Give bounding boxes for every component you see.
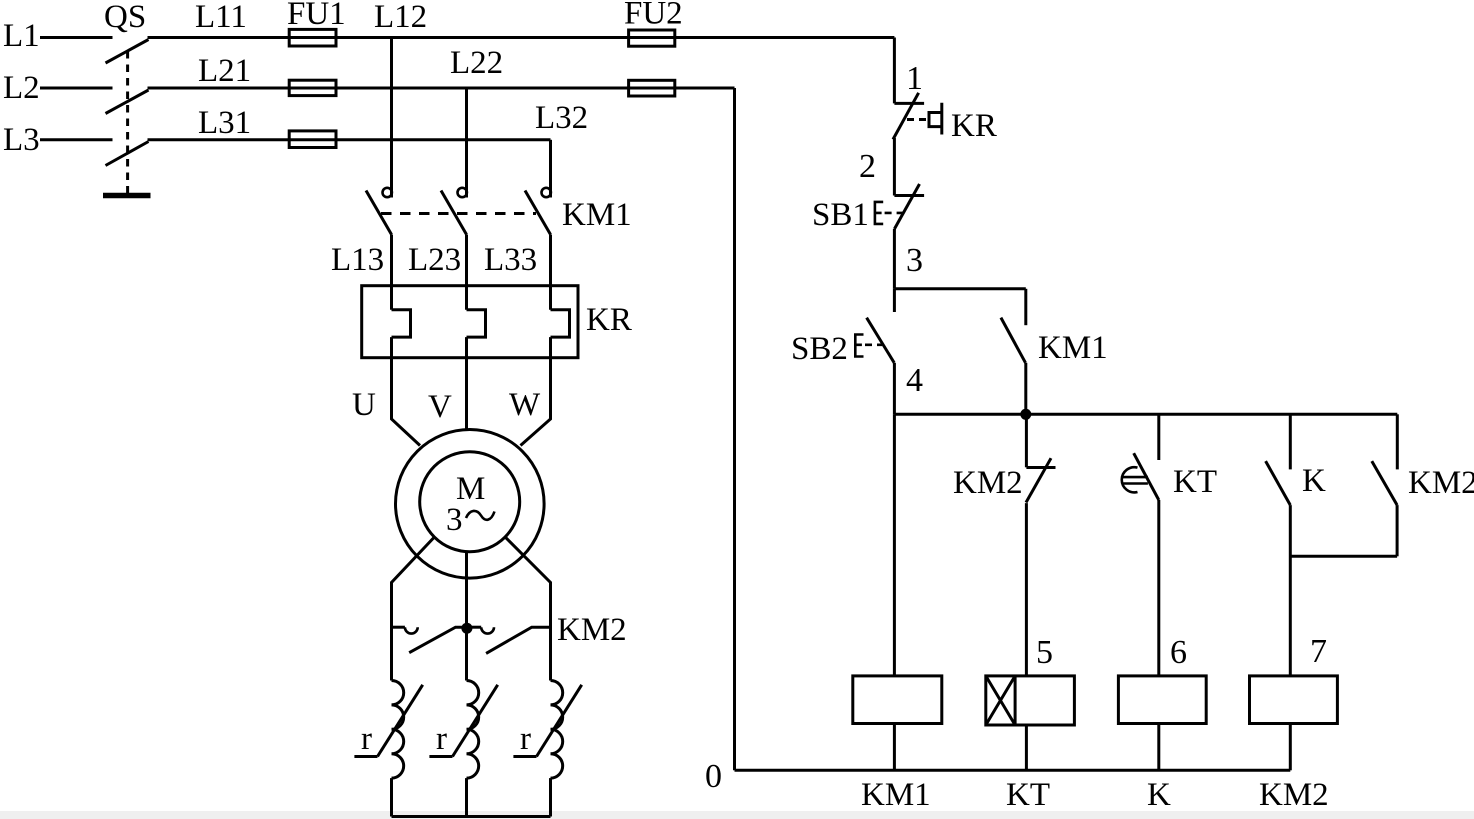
- wire row L31: [148, 138, 551, 141]
- svg-text:W: W: [509, 387, 541, 423]
- thermal relay KR box: [362, 286, 578, 358]
- rotor star bar: [392, 815, 551, 818]
- svg-text:FU2: FU2: [624, 0, 683, 32]
- contactor KM2 aux contact blade: [1372, 461, 1397, 505]
- contactor KM1 main contact 2 fixed terminal circle: [458, 188, 467, 197]
- button SB1 operator dashed link: [885, 212, 903, 215]
- coil KT X mark: [986, 676, 1015, 725]
- svg-text:4: 4: [906, 362, 923, 399]
- rotor wire r1 tail: [390, 778, 393, 816]
- svg-text:L3: L3: [3, 122, 40, 158]
- coil KM1: [853, 676, 942, 724]
- inductor r1 adjust arrow: [378, 685, 423, 757]
- svg-text:L13: L13: [331, 242, 384, 278]
- wire L22 drop: [465, 88, 468, 198]
- motor tilde mark: [466, 511, 495, 520]
- svg-text:KM1: KM1: [861, 777, 931, 813]
- inductor r3 adjust arrow: [537, 685, 582, 757]
- svg-text:L1: L1: [3, 18, 40, 54]
- wire L33 drop: [549, 235, 552, 310]
- svg-text:3: 3: [906, 242, 923, 279]
- contactor KM1 main contact 1 blade: [366, 191, 392, 235]
- svg-text:K: K: [1302, 463, 1326, 499]
- contactor KM1 main contact 3 blade: [525, 191, 551, 235]
- wire L3 lead-in: [40, 138, 113, 141]
- svg-text:L2: L2: [3, 70, 40, 106]
- contactor KM1 main contact 3 fixed terminal circle: [542, 188, 551, 197]
- wire KM1 coil branch: [893, 414, 896, 676]
- wire KM1 aux bottom: [1024, 363, 1027, 415]
- wire KM1 coil tail: [893, 724, 896, 771]
- fuse FU1 element 3: [289, 131, 336, 148]
- wire U drop: [392, 337, 421, 445]
- switch QS blade pole 2: [106, 90, 149, 114]
- contactor KM1 main contact 1 fixed terminal circle: [383, 188, 392, 197]
- wire control bottom bus: [735, 769, 1291, 772]
- junction dot rotor center node: [461, 623, 472, 634]
- wire K contact bottom: [1289, 505, 1292, 676]
- svg-text:L31: L31: [198, 105, 251, 141]
- wire K coil branch: [1157, 500, 1160, 676]
- wire node2-3: [893, 229, 896, 289]
- contactor KM2 shorting contact 1 blade: [409, 627, 462, 653]
- coil KT divider: [1014, 676, 1017, 725]
- relay KR actuator dashed link: [907, 118, 928, 121]
- svg-text:SB2: SB2: [791, 331, 848, 367]
- contactor KM1 aux contact blade: [1001, 318, 1026, 363]
- wire L32 drop: [549, 140, 552, 198]
- inductor r2 adjust arrow foot: [429, 755, 452, 758]
- svg-text:L32: L32: [535, 100, 588, 136]
- switch QS blade pole 1: [106, 40, 149, 64]
- inductor r2 coil: [467, 681, 479, 779]
- wire control return drop: [733, 88, 736, 770]
- svg-text:3: 3: [446, 502, 463, 538]
- wire W drop: [521, 337, 551, 445]
- switch QS link dashed line: [126, 51, 129, 193]
- wire KT coil tail: [1025, 725, 1028, 770]
- svg-text:KM2: KM2: [557, 612, 627, 648]
- wire KM2 aux bottom: [1396, 505, 1399, 556]
- relay KR NC contact blade: [893, 93, 919, 140]
- inductor r1 adjust arrow foot: [354, 755, 377, 758]
- wire node4 bus: [894, 413, 1397, 416]
- wire KT coil branch: [1025, 503, 1028, 676]
- svg-text:7: 7: [1310, 633, 1327, 670]
- svg-text:KR: KR: [951, 108, 997, 144]
- relay KR NC contact fixed bar: [894, 102, 924, 105]
- rotor wire r3 tail: [549, 778, 552, 816]
- wire KM2 coil tail: [1289, 724, 1292, 771]
- bottom scan band: [0, 811, 1474, 819]
- svg-text:L23: L23: [408, 242, 461, 278]
- button SB1 fixed bar: [894, 194, 924, 197]
- svg-text:KM2: KM2: [1408, 465, 1474, 501]
- button SB2 blade: [867, 318, 895, 363]
- fuse FU1 element 2: [289, 80, 336, 95]
- relay K contact blade: [1266, 461, 1291, 505]
- svg-text:K: K: [1147, 777, 1171, 813]
- svg-text:V: V: [428, 389, 452, 425]
- wire node3 branch: [894, 287, 1025, 290]
- coil K: [1118, 676, 1206, 724]
- contactor KM2 shorting contact 1 stub: [392, 626, 405, 629]
- wire row L21: [148, 87, 735, 90]
- inductor r1 coil: [392, 681, 404, 779]
- wire KM2 aux join bar: [1290, 555, 1397, 558]
- wire K contact branch top: [1289, 414, 1292, 469]
- svg-text:KM2: KM2: [1259, 777, 1329, 813]
- contactor KM1 mechanical link dashed: [381, 212, 536, 215]
- button SB2 operator: [855, 335, 863, 357]
- wire row L11: [148, 36, 895, 39]
- wire node1-2: [893, 138, 896, 196]
- junction dot node 4: [1020, 409, 1031, 420]
- svg-text:SB1: SB1: [812, 197, 869, 233]
- svg-text:r: r: [361, 721, 372, 757]
- contactor KM2 shorting contact 2 stub: [467, 626, 482, 629]
- thermal relay KR heater 1: [392, 310, 411, 337]
- switch QS blade pole 3: [106, 142, 149, 166]
- wire SB2 top: [893, 289, 896, 312]
- svg-text:6: 6: [1170, 634, 1187, 671]
- svg-text:KM1: KM1: [1038, 330, 1108, 366]
- svg-text:KT: KT: [1006, 777, 1050, 813]
- wire KT contact branch top: [1157, 414, 1160, 460]
- svg-text:r: r: [436, 721, 447, 757]
- button SB2 operator dashed link: [865, 343, 882, 346]
- wire SB2 bottom: [893, 363, 896, 415]
- wire L12 drop: [390, 38, 393, 198]
- svg-text:2: 2: [859, 148, 876, 185]
- relay KT delay symbol bars: [1123, 477, 1148, 483]
- motor M inner circle: [420, 452, 520, 552]
- fuse FU1 element 1: [289, 29, 336, 46]
- relay KT delay contact blade: [1134, 453, 1159, 500]
- motor M outer circle: [396, 430, 545, 579]
- svg-text:L12: L12: [374, 0, 427, 35]
- svg-text:KM1: KM1: [562, 197, 632, 233]
- coil KT box: [986, 676, 1075, 725]
- inductor r2 adjust arrow: [453, 685, 498, 757]
- svg-text:L33: L33: [484, 242, 537, 278]
- svg-text:KM2: KM2: [953, 465, 1023, 501]
- coil KM2: [1250, 676, 1338, 724]
- rotor wire right slant: [505, 537, 550, 680]
- wire L2 lead-in: [40, 87, 113, 90]
- button SB1 operator: [875, 202, 883, 224]
- contactor KM2 shorting contact 2 blade: [486, 627, 550, 653]
- wire KM1 aux top: [1024, 289, 1027, 325]
- wire L13 drop: [390, 235, 393, 310]
- contactor KM2 NC contact fixed bar: [1026, 466, 1055, 469]
- svg-text:FU1: FU1: [287, 0, 346, 32]
- button SB1 blade: [894, 184, 919, 229]
- wire K coil tail: [1157, 724, 1160, 771]
- rotor wire center: [465, 552, 468, 681]
- fuse FU2 element 2: [629, 80, 675, 96]
- wire L1 lead-in: [40, 36, 113, 39]
- svg-text:5: 5: [1036, 634, 1053, 671]
- thermal relay KR heater 3: [551, 310, 570, 337]
- svg-text:r: r: [520, 721, 531, 757]
- fuse FU2 element 1: [629, 30, 675, 46]
- relay KR trip actuator bracket: [929, 103, 942, 135]
- rotor wire left slant: [392, 537, 435, 680]
- relay KT delay symbol arc: [1122, 467, 1138, 492]
- contactor KM2 NC contact blade: [1026, 458, 1051, 502]
- svg-text:KT: KT: [1173, 464, 1217, 500]
- rotor wire r2 tail: [465, 778, 468, 816]
- contactor KM1 main contact 2 blade: [441, 191, 467, 235]
- inductor r3 adjust arrow foot: [513, 755, 536, 758]
- svg-text:L22: L22: [450, 45, 503, 81]
- thermal relay KR heater 2: [467, 310, 486, 337]
- inductor r3 coil: [551, 681, 563, 779]
- wire KM2 NC branch top: [1025, 414, 1028, 467]
- svg-text:QS: QS: [104, 0, 146, 35]
- svg-text:1: 1: [906, 60, 923, 97]
- switch QS handle bar: [103, 193, 151, 199]
- wire V drop: [465, 337, 468, 430]
- contactor KM2 shorting contact 2 terminal arc: [481, 627, 494, 633]
- wire KM2 aux branch top: [1396, 414, 1399, 469]
- contactor KM2 shorting contact 1 terminal arc: [405, 627, 418, 633]
- svg-text:L21: L21: [198, 53, 251, 89]
- wire L23 drop: [465, 235, 468, 310]
- svg-text:KR: KR: [586, 302, 632, 338]
- svg-text:0: 0: [705, 758, 722, 795]
- svg-text:U: U: [352, 387, 376, 423]
- svg-text:L11: L11: [195, 0, 247, 35]
- wire control phase drop right: [893, 38, 896, 104]
